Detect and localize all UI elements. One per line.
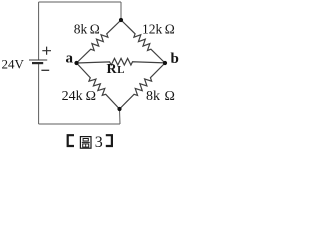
caption character tu inner top mouth bbox=[83, 139, 88, 142]
battery minus sign bbox=[41, 69, 49, 71]
svg-text:24kΩ: 24kΩ bbox=[62, 89, 96, 104]
svg-text:8kΩ: 8kΩ bbox=[146, 89, 175, 104]
caption character tu bottom inner tick bbox=[85, 144, 87, 147]
caption character tu (figure) outer box bbox=[80, 137, 91, 149]
battery plus sign bbox=[42, 47, 51, 55]
node b dot bbox=[163, 61, 167, 65]
resistor RL (a to b horizontal) bbox=[77, 58, 166, 65]
wire: left vertical below battery bbox=[38, 63, 40, 124]
wire: bottom vertical up to bottom node bbox=[119, 109, 122, 124]
wire: top horizontal from battery to top node branch bbox=[39, 1, 121, 3]
svg-text:12kΩ: 12kΩ bbox=[142, 22, 175, 37]
svg-text:8kΩ: 8kΩ bbox=[74, 21, 100, 36]
wire: left vertical above battery bbox=[38, 2, 40, 60]
caption left lenticular bracket bbox=[68, 135, 74, 146]
svg-text:24V: 24V bbox=[2, 57, 25, 72]
node bottom junction dot bbox=[117, 107, 121, 111]
battery V1 negative plate (short, thick) bbox=[32, 62, 43, 64]
svg-text:a: a bbox=[66, 51, 74, 67]
node top junction dot bbox=[119, 18, 123, 22]
node a dot bbox=[74, 61, 78, 65]
resistor R1 8kohm (a to top node) bbox=[77, 20, 122, 63]
svg-text:3: 3 bbox=[95, 134, 103, 151]
caption character tu middle stroke bbox=[82, 141, 90, 143]
caption right lenticular bracket bbox=[106, 135, 112, 146]
resistor R2 12kohm (top node to b) bbox=[121, 20, 165, 63]
svg-text:b: b bbox=[171, 51, 179, 67]
resistor R4 8kohm (bottom node to b) bbox=[120, 63, 166, 109]
resistor R3 24kohm (a to bottom node) bbox=[77, 63, 120, 109]
wire: bottom horizontal bbox=[39, 123, 120, 125]
svg-text:RL: RL bbox=[107, 62, 125, 77]
battery V1 positive plate (long) bbox=[29, 59, 47, 61]
wire: top-right vertical down to node dot bbox=[120, 2, 122, 20]
caption character tu bottom hui box bbox=[83, 144, 89, 147]
